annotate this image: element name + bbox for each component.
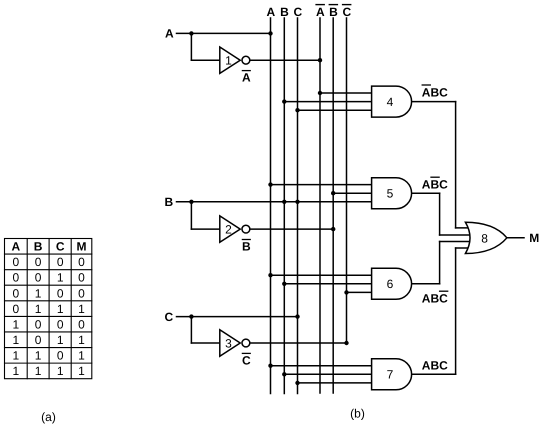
svg-text:1: 1 [35, 286, 42, 300]
junction tap C gate4 [295, 108, 299, 112]
junction C wire meets bus C [295, 314, 299, 318]
wire net C vertical bus line [297, 18, 299, 394]
svg-text:ABC: ABC [422, 292, 448, 306]
wire OR gate 8 output to M [507, 237, 524, 239]
svg-text:0: 0 [35, 271, 42, 285]
svg-text:2: 2 [225, 222, 232, 236]
svg-text:ABC: ABC [422, 358, 448, 372]
junction tap A gate5 [268, 182, 272, 186]
svg-text:1: 1 [225, 54, 232, 68]
wire inverter 2 output to bus B-bar [250, 228, 333, 230]
wire bus B to gate 7 input 2 [284, 373, 371, 375]
svg-text:0: 0 [12, 302, 19, 316]
svg-text:A: A [266, 5, 275, 19]
wire B branch down to inverter 2 [190, 202, 192, 229]
wire gate 5 output right [412, 192, 440, 194]
svg-text:1: 1 [78, 349, 85, 363]
svg-text:A: A [165, 27, 174, 41]
junction inverter 1 output meets bus A-bar [318, 58, 322, 62]
wire bus C to gate 4 input 3 [298, 109, 372, 111]
wire bus A to gate 6 input 1 [271, 274, 372, 276]
svg-text:(a): (a) [41, 410, 56, 424]
wire bus C to gate 7 input 3 [298, 382, 372, 384]
wire inverter 3 output to bus C-bar [250, 342, 347, 344]
svg-text:M: M [529, 231, 539, 245]
junction tap C gate7 [295, 381, 299, 385]
svg-text:0: 0 [57, 318, 64, 332]
junction tap A gate7 [268, 364, 272, 368]
AND gate 5 [372, 178, 412, 209]
wire bus B to gate 6 input 2 [284, 283, 371, 285]
wire bus A to gate 7 input 1 [271, 365, 372, 367]
svg-text:0: 0 [35, 318, 42, 332]
svg-text:C: C [342, 5, 351, 19]
svg-text:0: 0 [12, 271, 19, 285]
inverter 3 (NOT gate) [220, 330, 240, 356]
svg-text:(b): (b) [350, 406, 365, 420]
svg-text:0: 0 [78, 286, 85, 300]
svg-text:A: A [11, 240, 20, 254]
svg-text:4: 4 [387, 95, 394, 109]
wire A branch down to inverter 1 [190, 33, 192, 60]
wire gate 4 output down [455, 102, 457, 228]
wire bus A-bar to gate 4 input 1 [320, 92, 372, 94]
svg-text:1: 1 [35, 364, 42, 378]
svg-text:1: 1 [35, 349, 42, 363]
svg-text:0: 0 [12, 255, 19, 269]
junction A wire meets bus A [268, 31, 272, 35]
svg-text:0: 0 [57, 286, 64, 300]
svg-text:1: 1 [57, 271, 64, 285]
svg-text:B: B [34, 240, 43, 254]
wire net B vertical bus line [283, 18, 285, 394]
wire bus B-bar to gate 5 input 2 [333, 192, 371, 194]
svg-text:8: 8 [481, 231, 488, 245]
svg-text:5: 5 [387, 187, 394, 201]
wire gate 7 output right [412, 373, 456, 375]
svg-text:0: 0 [35, 333, 42, 347]
junction tap A gate6 [268, 273, 272, 277]
svg-text:A: A [242, 71, 251, 85]
wire net A vertical bus line [270, 18, 272, 394]
inverter 1 (NOT gate) [220, 47, 240, 73]
wire gate 7 output up [455, 248, 457, 374]
wire gate 6 output right [412, 283, 440, 285]
wire into inverter 1 input [191, 59, 219, 61]
wire gate 5 output down [439, 193, 441, 235]
junction B branch to inverter 2 [189, 200, 193, 204]
svg-text:ABC: ABC [422, 178, 448, 192]
svg-text:B: B [280, 5, 289, 19]
svg-text:B: B [242, 240, 251, 254]
svg-text:0: 0 [78, 271, 85, 285]
junction inverter 3 output meets bus C-bar [344, 341, 348, 345]
junction bus C tap for gate 5 input [295, 200, 299, 204]
svg-text:C: C [164, 310, 173, 324]
svg-text:1: 1 [57, 302, 64, 316]
junction A branch to inverter 1 [189, 31, 193, 35]
wire inverter 1 output to bus A-bar [250, 59, 320, 61]
svg-text:0: 0 [78, 255, 85, 269]
svg-text:0: 0 [57, 349, 64, 363]
svg-text:1: 1 [12, 349, 19, 363]
svg-text:1: 1 [12, 333, 19, 347]
svg-text:B: B [164, 195, 173, 209]
wire input C to bus C [177, 316, 298, 318]
junction tap A-bar gate4 [318, 91, 322, 95]
wire into inverter 2 input [191, 228, 219, 230]
wire gate 6 output into OR gate [440, 241, 472, 243]
wire net B-bar vertical bus line [332, 18, 334, 393]
svg-text:7: 7 [387, 368, 394, 382]
svg-text:1: 1 [78, 302, 85, 316]
svg-text:1: 1 [12, 318, 19, 332]
svg-text:1: 1 [35, 302, 42, 316]
wire gate 6 output up [439, 242, 441, 284]
wire gate 4 output into OR gate [456, 227, 472, 229]
svg-text:C: C [242, 354, 251, 368]
wire bus A to gate 5 input 1 [271, 184, 372, 186]
AND gate 6 [372, 268, 412, 299]
svg-text:1: 1 [78, 333, 85, 347]
svg-text:M: M [77, 240, 87, 254]
wire gate 5 output into OR gate [440, 234, 472, 236]
junction C branch to inverter 3 [189, 314, 193, 318]
AND gate 4 [372, 86, 412, 117]
svg-text:1: 1 [57, 333, 64, 347]
inverter 2 (NOT gate) [220, 216, 240, 242]
junction B wire meets bus B [282, 200, 286, 204]
junction inverter 2 output meets bus B-bar [331, 227, 335, 231]
wire C branch down to inverter 3 [190, 317, 192, 343]
junction tap B gate4 [282, 99, 286, 103]
svg-text:C: C [56, 240, 65, 254]
wire input A to bus A [177, 32, 271, 34]
wire bus C-bar to gate 6 input 3 [347, 291, 372, 293]
svg-text:B: B [329, 5, 338, 19]
svg-text:6: 6 [387, 277, 394, 291]
svg-text:0: 0 [57, 255, 64, 269]
svg-text:0: 0 [12, 286, 19, 300]
junction tap B-bar gate5 [331, 191, 335, 195]
svg-text:1: 1 [12, 364, 19, 378]
junction tap B gate6 [282, 282, 286, 286]
wire input B across to AND gate 5 bottom input [177, 201, 372, 203]
wire bus B to gate 4 input 2 [284, 101, 371, 103]
svg-text:1: 1 [57, 364, 64, 378]
wire net A-bar vertical bus line [319, 18, 321, 393]
svg-text:0: 0 [35, 255, 42, 269]
svg-text:1: 1 [78, 364, 85, 378]
AND gate 7 [372, 359, 412, 390]
OR gate 8 [465, 222, 507, 253]
svg-text:C: C [293, 5, 302, 19]
wire into inverter 3 input [191, 342, 219, 344]
junction tap B gate7 [282, 372, 286, 376]
wire net C-bar vertical bus line [346, 18, 348, 343]
svg-text:A: A [316, 5, 325, 19]
junction tap C-bar gate6 [344, 290, 348, 294]
wire gate 4 output right [412, 101, 456, 103]
svg-text:ABC: ABC [422, 85, 448, 99]
svg-text:3: 3 [225, 336, 232, 350]
wire gate 7 output into OR gate [456, 247, 472, 249]
truth table [5, 239, 92, 379]
svg-text:0: 0 [78, 318, 85, 332]
